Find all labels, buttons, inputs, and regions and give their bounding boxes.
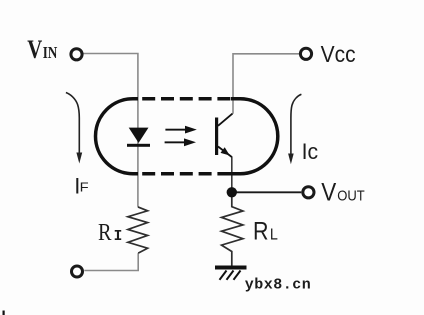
svg-text:ybx8.cn: ybx8.cn xyxy=(245,277,312,294)
svg-text:F: F xyxy=(80,179,89,194)
svg-text:Vcc: Vcc xyxy=(321,41,356,67)
svg-text:L: L xyxy=(270,227,278,244)
svg-text:V: V xyxy=(321,179,336,207)
svg-text:R: R xyxy=(98,220,112,246)
svg-text:OUT: OUT xyxy=(337,188,365,205)
svg-text:I: I xyxy=(114,229,123,245)
svg-text:IN: IN xyxy=(43,43,58,62)
svg-text:Ic: Ic xyxy=(302,139,319,164)
svg-text:R: R xyxy=(253,218,269,246)
svg-text:V: V xyxy=(27,35,42,64)
